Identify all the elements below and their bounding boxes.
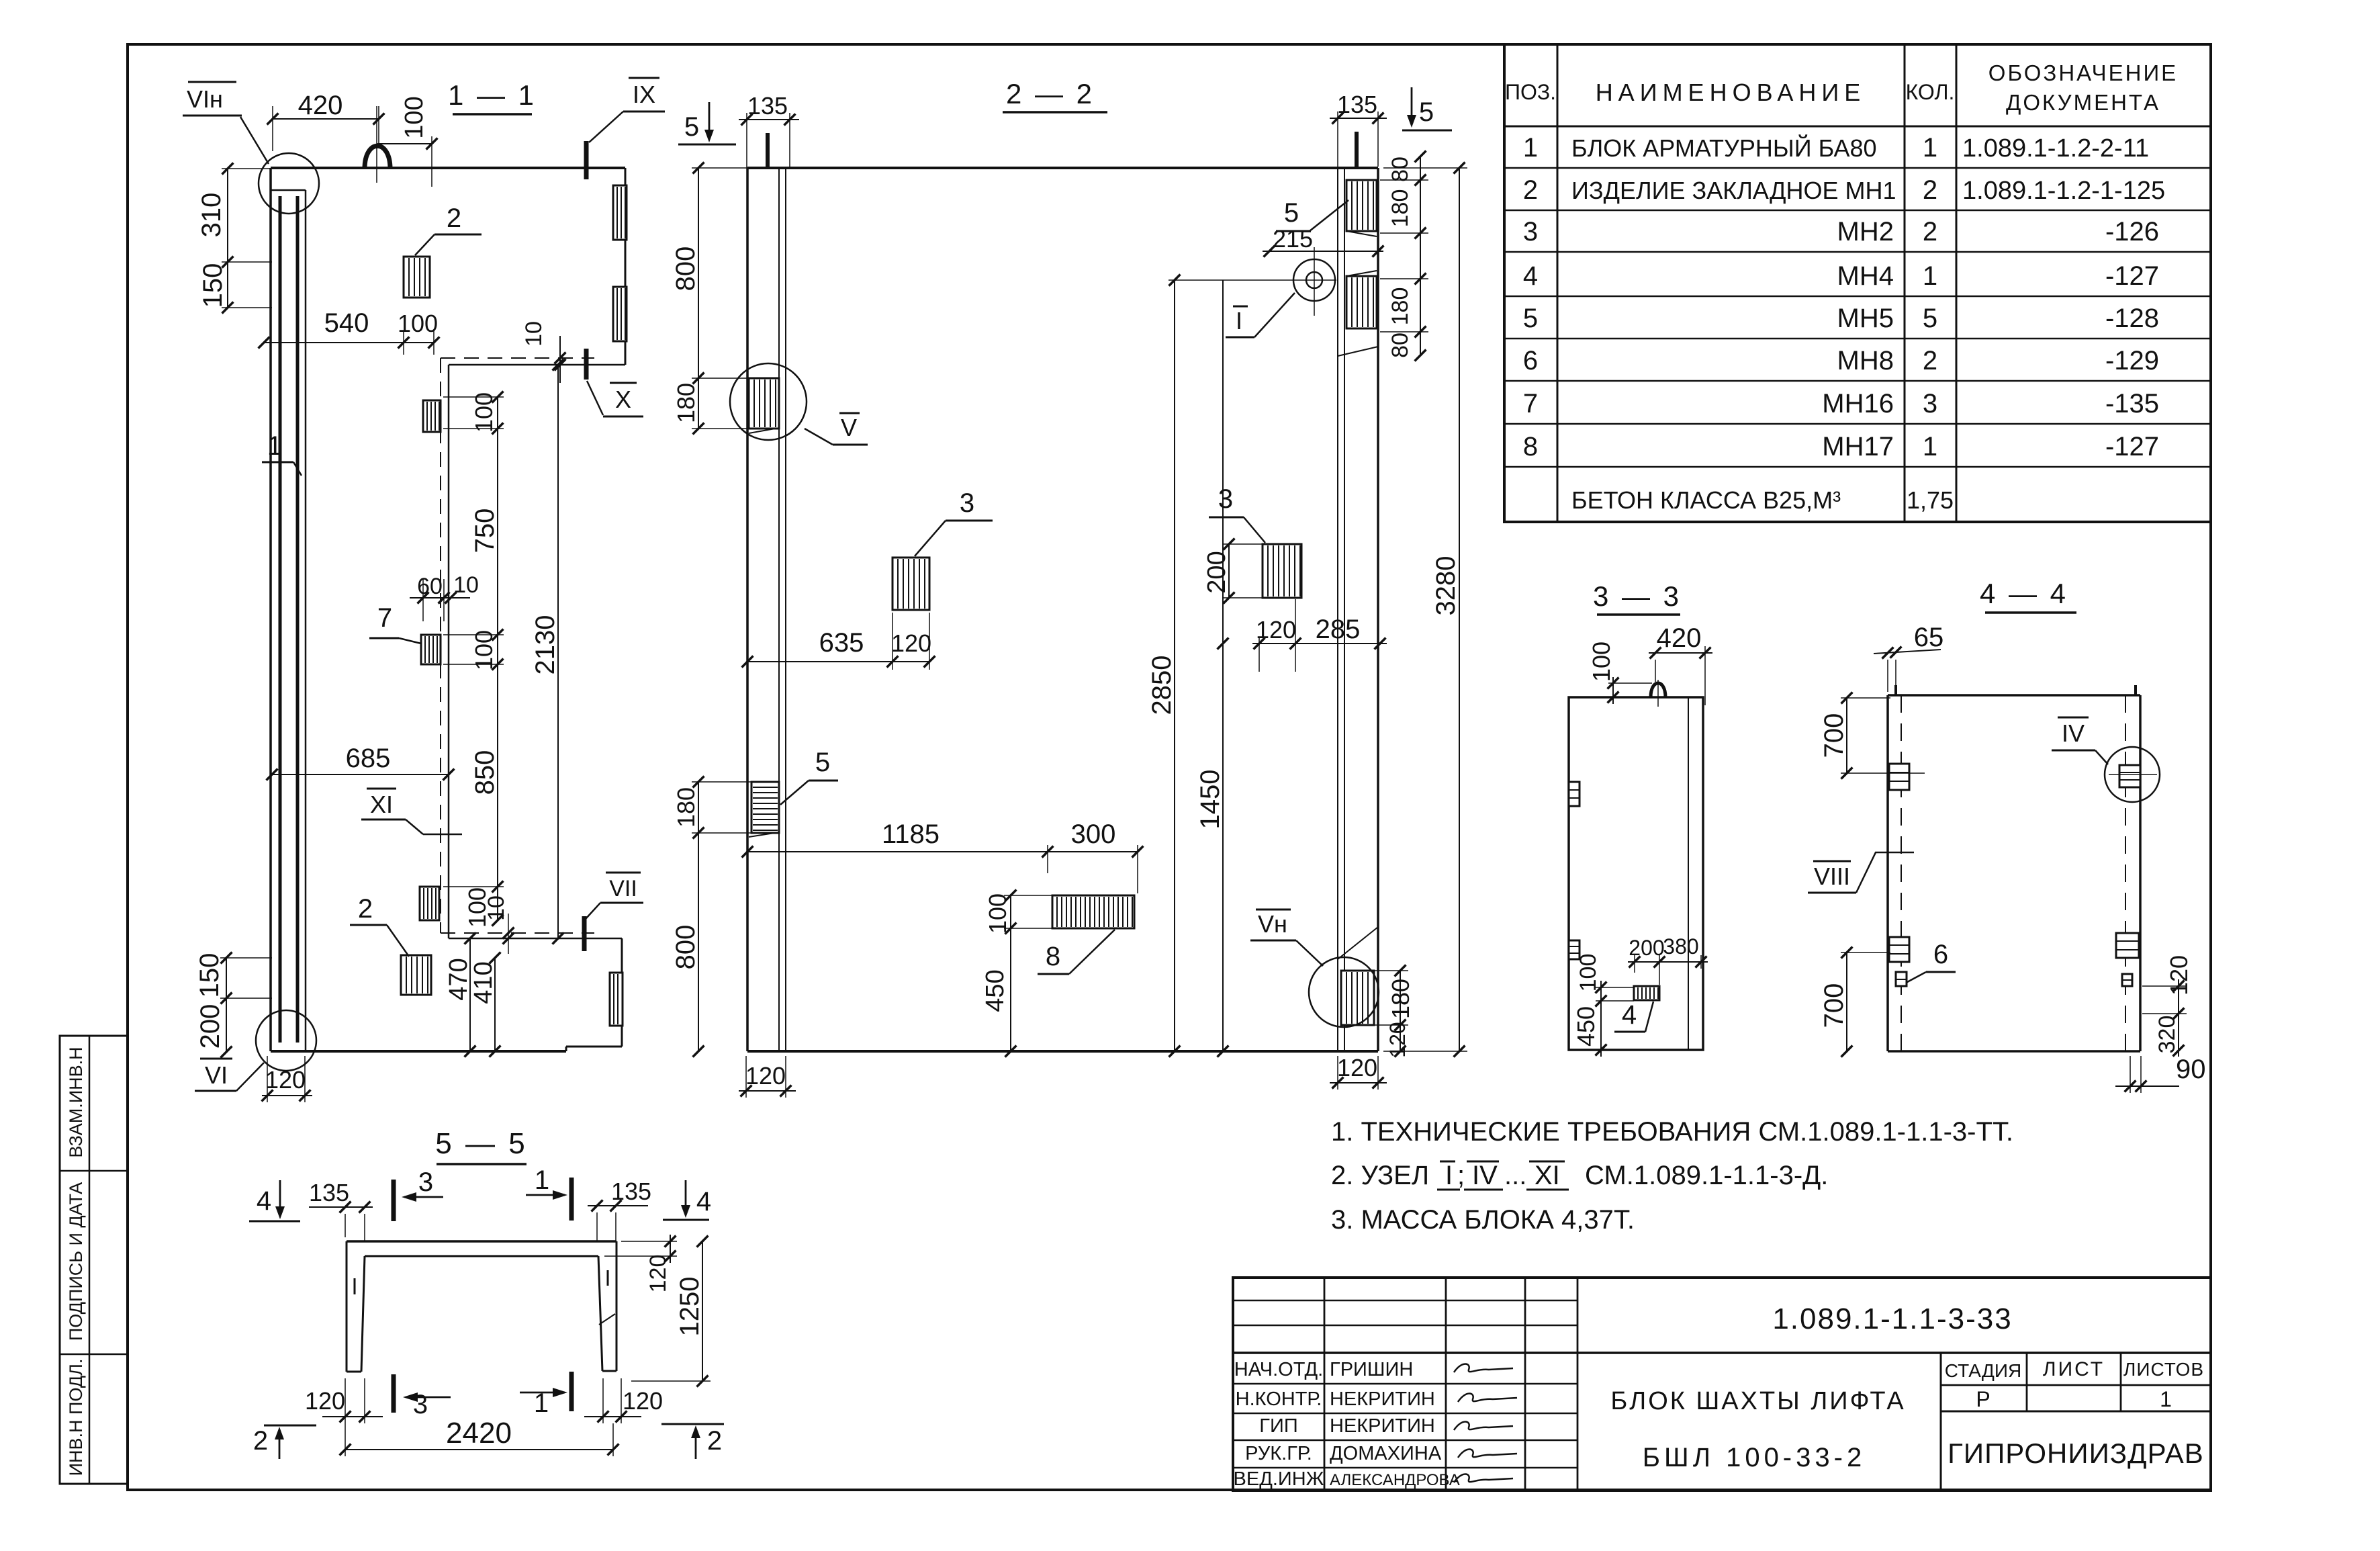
table headers	[1505, 60, 2178, 115]
svg-text:-127: -127	[2105, 432, 2159, 461]
svg-text:100: 100	[1575, 954, 1601, 992]
table row 7	[1523, 389, 2159, 418]
svg-text:1.089.1-1.2-2-11: 1.089.1-1.2-2-11	[1962, 134, 2149, 163]
dim 180 120 bottom right chain	[1374, 965, 1414, 1058]
svg-text:БЛОК ШАХТЫ ЛИФТА: БЛОК ШАХТЫ ЛИФТА	[1610, 1387, 1905, 1415]
svg-text:БШЛ 100-33-2: БШЛ 100-33-2	[1643, 1443, 1866, 1472]
svg-text:2: 2	[253, 1426, 268, 1456]
svg-text:1250: 1250	[675, 1277, 704, 1337]
callout 3 right	[1209, 484, 1265, 543]
2-2 section cut 5 left	[678, 102, 768, 168]
svg-text:ЛИСТОВ: ЛИСТОВ	[2123, 1359, 2204, 1380]
svg-text:VIн: VIн	[187, 85, 223, 113]
dim 120 bottom 1-1	[262, 1056, 312, 1102]
svg-text:ЛИСТ: ЛИСТ	[2043, 1358, 2105, 1380]
1-1 recess plate 7	[421, 635, 441, 664]
title block row ГИП	[1259, 1415, 1435, 1437]
svg-text:2: 2	[1923, 346, 1937, 375]
svg-text:МН16: МН16	[1822, 389, 1894, 418]
1-1 detail circle VI	[256, 1010, 316, 1071]
3-3 dim 200 380	[1628, 934, 1708, 985]
3-3 callout 4	[1614, 1000, 1653, 1032]
svg-text:3: 3	[1218, 484, 1233, 514]
title block row Н.КОНТР.	[1236, 1388, 1435, 1410]
svg-text:1 — 1: 1 — 1	[448, 79, 537, 111]
callout 1 wall	[262, 431, 302, 476]
dim 310 150 left	[197, 163, 272, 314]
svg-text:НЕКРИТИН: НЕКРИТИН	[1330, 1388, 1435, 1410]
svg-text:8: 8	[1046, 942, 1060, 971]
svg-text:215: 215	[1273, 225, 1313, 253]
1-1 lifting loop	[365, 106, 390, 183]
5-5 dim 135 top right	[588, 1178, 651, 1241]
note 2	[1331, 1161, 1828, 1190]
svg-text:180: 180	[672, 787, 700, 828]
svg-text:Р: Р	[1976, 1387, 1990, 1411]
table row 1	[1523, 133, 2149, 163]
svg-text:ОБОЗНАЧЕНИЕ: ОБОЗНАЧЕНИЕ	[1988, 60, 2178, 85]
svg-text:6: 6	[1523, 346, 1538, 375]
title block drawing name	[1610, 1387, 1905, 1472]
note 3	[1331, 1205, 1635, 1235]
svg-text:V: V	[841, 414, 857, 441]
dim 10 bottom recess	[484, 895, 514, 954]
5-5 channel outline	[347, 1241, 616, 1372]
svg-text:2: 2	[358, 894, 373, 924]
svg-text:ГИПРОНИИЗДРАВ: ГИПРОНИИЗДРАВ	[1948, 1437, 2204, 1469]
svg-text:1.089.1-1.1-3-33: 1.089.1-1.1-3-33	[1772, 1302, 2012, 1335]
callout 2 upper	[415, 204, 482, 255]
1-1 recess plate upper	[423, 400, 441, 432]
svg-text:IV: IV	[1472, 1161, 1498, 1190]
svg-text:ГРИШИН: ГРИШИН	[1330, 1359, 1413, 1380]
svg-text:1450: 1450	[1195, 770, 1225, 830]
2-2 plate bottom right VH	[1341, 971, 1374, 1025]
3-3 plate 4	[1634, 986, 1659, 1000]
svg-text:2: 2	[707, 1426, 722, 1456]
svg-text:800: 800	[671, 247, 700, 292]
svg-text:4: 4	[696, 1187, 711, 1216]
4-4 plate IV	[2119, 765, 2140, 787]
label VH	[1250, 910, 1323, 966]
view 3-3 title	[1593, 580, 1682, 615]
2-2 plate top right 5	[1346, 180, 1377, 236]
svg-text:5: 5	[1419, 97, 1434, 127]
1-1 reinforcement bars	[280, 196, 297, 1043]
svg-text:I: I	[1445, 1161, 1453, 1190]
dim 200 plate3	[1203, 539, 1264, 604]
svg-text:450: 450	[981, 969, 1009, 1012]
svg-text:КОЛ.: КОЛ.	[1906, 80, 1955, 104]
svg-text:ДОМАХИНА: ДОМАХИНА	[1330, 1443, 1442, 1464]
svg-text:180: 180	[1387, 189, 1413, 228]
svg-text:135: 135	[1337, 91, 1377, 118]
5-5 mark 1 top	[526, 1165, 571, 1221]
dim 135 top right 2-2	[1330, 91, 1387, 167]
table row 5	[1523, 304, 2159, 333]
svg-text:8: 8	[1523, 432, 1538, 461]
dim 800 180 left upper	[671, 163, 749, 435]
view 1-1 title	[448, 79, 537, 114]
dim 470 410	[445, 933, 500, 1057]
label X	[587, 381, 643, 416]
1-1 embedded plate 2 upper	[404, 257, 430, 298]
3-3 dim 420	[1649, 623, 1712, 705]
left attribute strip boxes	[60, 1036, 128, 1484]
svg-text:3 — 3: 3 — 3	[1593, 580, 1682, 612]
svg-text:4: 4	[1622, 1000, 1637, 1030]
table row 6	[1523, 346, 2159, 375]
svg-text:РУК.ГР.: РУК.ГР.	[1245, 1443, 1312, 1464]
svg-text:300: 300	[1071, 819, 1116, 849]
svg-text:200: 200	[1629, 936, 1664, 960]
svg-text:180: 180	[1387, 979, 1414, 1019]
2-2 plate 3 left	[892, 558, 929, 610]
table row 8	[1523, 432, 2159, 461]
dim 215	[1263, 225, 1383, 257]
svg-text:10: 10	[453, 572, 479, 598]
dim 135 top left 2-2	[739, 92, 799, 168]
svg-text:МН8: МН8	[1837, 346, 1894, 375]
svg-text:100: 100	[984, 893, 1011, 934]
1-1 recess plate lower	[420, 887, 439, 920]
svg-text:320: 320	[2154, 1016, 2180, 1054]
2-2 detail circle VH	[1309, 957, 1379, 1027]
signatures	[1454, 1364, 1517, 1483]
2-2 plate 8	[1052, 895, 1134, 928]
svg-text:100: 100	[1588, 641, 1615, 682]
1-1 upper flange bottom edge	[441, 358, 625, 365]
1-1 detail circle VIn	[259, 153, 319, 214]
svg-text:Н.КОНТР.: Н.КОНТР.	[1236, 1388, 1322, 1410]
dim 685	[267, 744, 455, 780]
3-3 left edge plate lower	[1569, 940, 1580, 959]
svg-text:2: 2	[1923, 175, 1937, 205]
svg-text:180: 180	[1387, 287, 1413, 326]
label VIn	[183, 82, 269, 164]
svg-text:470: 470	[445, 958, 473, 1000]
svg-text:80: 80	[1387, 157, 1413, 182]
svg-text:7: 7	[1523, 389, 1538, 418]
svg-text:ПОЗ.: ПОЗ.	[1505, 80, 1556, 104]
strip label ПОДПИСЬ И ДАТА	[66, 1182, 86, 1341]
5-5 dim 1250	[631, 1236, 711, 1387]
1-1 section mark VII	[582, 916, 587, 951]
dim 120 bottom right 2-2	[1330, 1054, 1387, 1090]
svg-text:635: 635	[819, 628, 864, 658]
svg-text:135: 135	[747, 92, 788, 120]
svg-text:135: 135	[309, 1179, 349, 1206]
svg-text:420: 420	[1657, 623, 1702, 653]
4-4 plate bottom right	[2116, 933, 2139, 986]
5-5 leg tick marks	[355, 1270, 615, 1325]
table row 4	[1523, 261, 2159, 291]
dim 100 450 plate8	[981, 890, 1052, 1057]
svg-text:4: 4	[1523, 261, 1538, 291]
svg-text:ВЗАМ.ИНВ.Н: ВЗАМ.ИНВ.Н	[66, 1047, 86, 1157]
svg-text:2850: 2850	[1147, 656, 1177, 715]
svg-text:5 — 5: 5 — 5	[435, 1127, 527, 1160]
dim column 100 750 100 850 100	[443, 392, 504, 928]
svg-text:1: 1	[1523, 133, 1538, 163]
svg-text:5: 5	[1923, 304, 1937, 333]
5-5 dim 120 bottom left	[305, 1378, 383, 1423]
view 5-5 title	[435, 1127, 527, 1164]
svg-text:150: 150	[198, 263, 228, 308]
svg-text:120: 120	[2165, 955, 2193, 995]
view 4-4 title	[1980, 578, 2076, 613]
dim 1450	[1195, 280, 1228, 1057]
svg-text:СМ.1.089.1-1.1-3-Д.: СМ.1.089.1-1.1-3-Д.	[1585, 1161, 1828, 1190]
strip label ВЗАМ.ИНВ.Н	[66, 1047, 86, 1157]
dim 635 120	[742, 613, 935, 670]
svg-text:;: ;	[1457, 1161, 1465, 1190]
5-5 mark 2 bottom left	[253, 1425, 316, 1459]
svg-text:120: 120	[891, 629, 931, 657]
5-5 mark 4 top right	[663, 1180, 711, 1220]
svg-text:VI: VI	[205, 1061, 228, 1089]
svg-text:АЛЕКСАНДРОВА: АЛЕКСАНДРОВА	[1330, 1471, 1460, 1489]
svg-text:685: 685	[346, 744, 391, 773]
4-4 detail circle IV	[2105, 747, 2160, 802]
svg-text:1: 1	[1923, 261, 1937, 291]
svg-text:3280: 3280	[1431, 556, 1461, 616]
svg-text:450: 450	[1572, 1006, 1600, 1047]
svg-text:60: 60	[417, 574, 443, 599]
svg-text:XI: XI	[370, 791, 393, 818]
1-1 right face plate c	[610, 973, 623, 1026]
svg-text:150: 150	[195, 953, 224, 998]
5-5 mark 3 top	[394, 1167, 443, 1221]
2-2 node circle I	[1293, 247, 1335, 316]
4-4 plate bottom left	[1889, 937, 1909, 986]
svg-text:6: 6	[1933, 940, 1948, 969]
svg-text:120: 120	[265, 1066, 306, 1094]
label XI	[361, 789, 462, 834]
svg-text:2420: 2420	[446, 1417, 512, 1450]
dim 120 bottom left 2-2	[739, 1056, 796, 1098]
1-1 right face plate b	[613, 287, 627, 341]
dim 2850	[1147, 275, 1336, 1057]
title block grid	[1233, 1278, 2211, 1491]
svg-text:3: 3	[1923, 389, 1937, 418]
svg-text:МН2: МН2	[1837, 217, 1894, 247]
title block stage cells	[1945, 1358, 2204, 1411]
2-2 section cut 5 right	[1357, 87, 1452, 168]
svg-text:285: 285	[1316, 615, 1361, 644]
svg-text:120: 120	[305, 1387, 345, 1415]
svg-text:1: 1	[534, 1388, 549, 1418]
svg-text:310: 310	[197, 193, 226, 238]
3-3 lifting loop	[1651, 680, 1665, 707]
svg-text:1185: 1185	[882, 819, 940, 849]
callout 3 left	[915, 488, 993, 556]
4-4 dim 700 bottom	[1819, 947, 1890, 1057]
dim 200 150 left bottom	[195, 952, 272, 1058]
svg-text:5: 5	[1284, 198, 1299, 228]
2-2 outline	[747, 168, 1378, 1051]
view 2-2 title	[1003, 78, 1107, 112]
svg-text:120: 120	[1256, 616, 1296, 644]
svg-text:800: 800	[671, 925, 700, 970]
svg-text:120: 120	[745, 1062, 786, 1090]
svg-text:2: 2	[1523, 175, 1538, 205]
2-2 plate 3 right	[1263, 544, 1301, 598]
4-4 outline	[1888, 685, 2140, 1051]
svg-text:IV: IV	[2062, 719, 2085, 747]
svg-text:850: 850	[470, 750, 500, 795]
dim chain 80 180 180 80 right	[1380, 151, 1428, 361]
2-2 detail circle V	[730, 363, 807, 440]
svg-text:БЛОК АРМАТУРНЫЙ БА80: БЛОК АРМАТУРНЫЙ БА80	[1571, 134, 1877, 162]
1-1 section mark X	[584, 349, 589, 380]
callout 7	[369, 603, 421, 644]
5-5 dim 2420	[340, 1417, 619, 1456]
svg-text:МН5: МН5	[1837, 304, 1894, 333]
svg-text:120: 120	[1385, 1022, 1410, 1057]
strip label ИНВ.Н ПОДЛ.	[66, 1359, 86, 1476]
3-3 left edge plate upper	[1569, 782, 1580, 806]
svg-text:ПОДПИСЬ И ДАТА: ПОДПИСЬ И ДАТА	[66, 1182, 86, 1341]
5-5 mark 3 bottom	[394, 1374, 451, 1419]
4-4 callout 6	[1907, 940, 1956, 982]
3-3 outline	[1569, 697, 1703, 1050]
svg-text:VIII: VIII	[1814, 862, 1850, 890]
4-4 label IV	[2052, 717, 2108, 764]
svg-text:65: 65	[1914, 623, 1944, 652]
svg-text:750: 750	[470, 508, 500, 553]
svg-text:ИЗДЕЛИЕ ЗАКЛАДНОЕ МН1: ИЗДЕЛИЕ ЗАКЛАДНОЕ МН1	[1571, 177, 1896, 204]
svg-text:80: 80	[1387, 333, 1413, 358]
label I node	[1226, 293, 1295, 337]
4-4 label VIII	[1808, 852, 1914, 893]
dim 60 10	[410, 572, 479, 621]
svg-text:-128: -128	[2105, 304, 2159, 333]
svg-text:2130: 2130	[531, 615, 560, 675]
parts table grid	[1504, 44, 2211, 522]
label IX	[589, 78, 665, 142]
4-4 plate top left	[1889, 764, 1909, 790]
table row 3	[1523, 217, 2159, 247]
svg-text:XI: XI	[1535, 1161, 1560, 1190]
5-5 mark 1 bottom	[520, 1372, 571, 1418]
svg-text:ДОКУМЕНТА: ДОКУМЕНТА	[2006, 90, 2160, 115]
svg-text:180: 180	[672, 383, 700, 423]
svg-text:2: 2	[447, 204, 461, 233]
svg-text:100: 100	[470, 630, 498, 670]
label V	[805, 413, 868, 445]
dim 1185 300	[742, 819, 1144, 893]
svg-text:100: 100	[470, 392, 498, 433]
4-4 dim 120 320 right	[2142, 955, 2193, 1057]
dim 120 285	[1252, 599, 1387, 672]
svg-text:5: 5	[815, 748, 830, 777]
svg-text:3: 3	[1523, 217, 1538, 247]
table row 2	[1523, 175, 2165, 205]
3-3 dim 100 450 bottom	[1572, 954, 1634, 1057]
svg-text:100: 100	[398, 310, 438, 337]
svg-text:МН4: МН4	[1837, 261, 1894, 291]
dim 100 top	[377, 96, 437, 187]
svg-text:540: 540	[324, 308, 369, 338]
svg-text:1. ТЕХНИЧЕСКИЕ ТРЕБОВАНИЯ СМ.: 1. ТЕХНИЧЕСКИЕ ТРЕБОВАНИЯ СМ.1.089.1-1.1…	[1331, 1117, 2013, 1147]
callout 8	[1038, 930, 1115, 974]
dim 180 800 left lower	[671, 777, 751, 1057]
svg-text:Vн: Vн	[1258, 910, 1287, 938]
svg-text:3. МАССА БЛОКА 4,37Т.: 3. МАССА БЛОКА 4,37Т.	[1331, 1205, 1635, 1235]
svg-text:120: 120	[1337, 1054, 1377, 1081]
svg-text:-129: -129	[2105, 346, 2159, 375]
svg-text:1.089.1-1.2-1-125: 1.089.1-1.2-1-125	[1962, 177, 2165, 205]
svg-text:120: 120	[645, 1255, 671, 1293]
5-5 mark 2 bottom right	[661, 1424, 724, 1459]
title block row РУК.ГР.	[1245, 1443, 1442, 1464]
svg-text:1,75: 1,75	[1907, 486, 1954, 514]
5-5 dim 120 flange	[604, 1235, 677, 1292]
svg-text:VII: VII	[609, 876, 637, 901]
2-2 plate right second	[1346, 271, 1377, 328]
svg-text:135: 135	[611, 1178, 651, 1205]
svg-text:НАИМЕНОВАНИЕ: НАИМЕНОВАНИЕ	[1596, 79, 1866, 106]
svg-text:10: 10	[484, 895, 509, 921]
dim 10 top recess	[521, 321, 565, 383]
svg-text:410: 410	[469, 961, 498, 1004]
dim 2130	[531, 359, 563, 944]
svg-text:200: 200	[195, 1004, 225, 1049]
svg-text:2 — 2: 2 — 2	[1006, 78, 1095, 109]
table row concrete	[1571, 486, 1954, 514]
dim 540 100	[259, 308, 440, 355]
dim 420	[267, 91, 385, 151]
svg-text:7: 7	[377, 603, 392, 633]
svg-text:10: 10	[521, 321, 547, 347]
svg-text:-127: -127	[2105, 261, 2159, 291]
svg-text:БЕТОН КЛАССА В25,М³: БЕТОН КЛАССА В25,М³	[1571, 486, 1841, 514]
callout 5 top right	[1276, 198, 1348, 231]
svg-text:420: 420	[298, 91, 343, 120]
svg-text:-126: -126	[2105, 217, 2159, 247]
dim 3280	[1383, 163, 1467, 1057]
title block row НАЧ.ОТД.	[1234, 1359, 1413, 1380]
svg-text:ИНВ.Н ПОДЛ.: ИНВ.Н ПОДЛ.	[66, 1359, 86, 1476]
svg-text:1: 1	[1923, 133, 1937, 163]
svg-text:НАЧ.ОТД.: НАЧ.ОТД.	[1234, 1359, 1323, 1380]
svg-text:IX: IX	[633, 81, 655, 108]
svg-text:120: 120	[623, 1387, 663, 1415]
svg-text:ВЕД.ИНЖ: ВЕД.ИНЖ	[1234, 1468, 1324, 1490]
callout 2 lower	[350, 894, 409, 957]
svg-text:3: 3	[413, 1390, 428, 1419]
svg-text:700: 700	[1819, 983, 1849, 1028]
callout 5 lower left	[780, 748, 838, 805]
5-5 mark 4 top left	[249, 1180, 300, 1221]
svg-text:4 — 4: 4 — 4	[1980, 578, 2068, 609]
title block row ВЕД.ИНЖ	[1234, 1468, 1460, 1490]
svg-text:1: 1	[267, 431, 282, 461]
svg-text:4: 4	[257, 1186, 271, 1216]
title block organization	[1948, 1437, 2204, 1469]
svg-text:I: I	[1236, 307, 1242, 335]
1-1 right face plate a	[613, 185, 627, 240]
svg-text:СТАДИЯ: СТАДИЯ	[1945, 1360, 2021, 1381]
svg-text:X: X	[615, 386, 631, 413]
svg-text:1: 1	[535, 1165, 549, 1195]
svg-text:90: 90	[2176, 1055, 2206, 1084]
2-2 plate lower left 5	[751, 782, 779, 833]
svg-text:3: 3	[960, 488, 974, 518]
svg-text:1: 1	[1923, 432, 1937, 461]
1-1 embedded plate 2 lower	[401, 955, 431, 995]
